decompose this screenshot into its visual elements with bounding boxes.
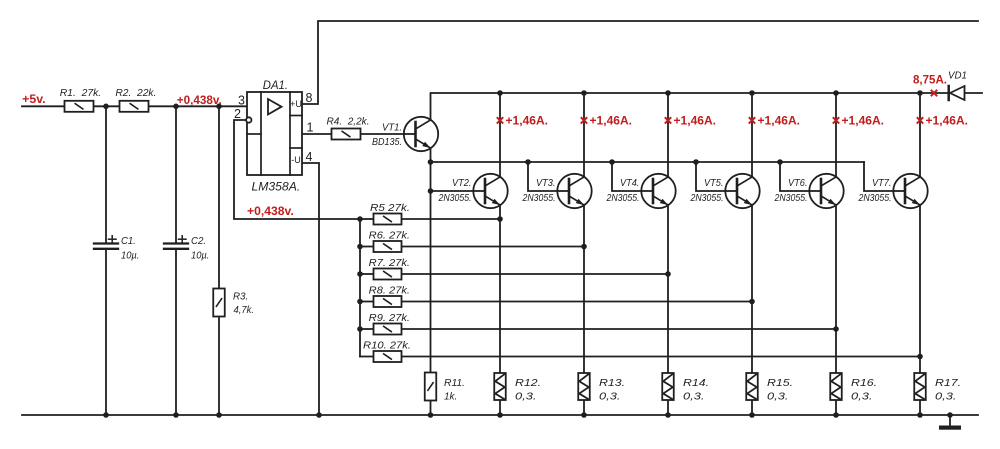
- resistor R6: [374, 241, 402, 252]
- measure mark x=920: [917, 117, 923, 123]
- node VT2 base: [428, 188, 434, 194]
- svg-text:10µ.: 10µ.: [191, 249, 209, 261]
- wire R15 to rail: [751, 400, 753, 415]
- transistor Q4 VT4 2N3055: [641, 174, 675, 208]
- node collector bus x=500: [497, 90, 503, 96]
- node bus y=329: [357, 326, 363, 332]
- svg-text:0,3.: 0,3.: [683, 391, 704, 403]
- svg-text:DA1.: DA1.: [263, 80, 288, 92]
- svg-text:R10. 27k.: R10. 27k.: [363, 340, 411, 352]
- wire R17 to rail: [919, 400, 921, 415]
- node rail x=219: [216, 412, 222, 418]
- wire R12 to rail: [499, 400, 501, 415]
- svg-text:4: 4: [306, 150, 313, 164]
- wire to VT2 base: [431, 190, 474, 192]
- node base bus x=528: [525, 159, 531, 165]
- svg-text:C1.: C1.: [121, 235, 136, 247]
- node emitter x=500: [497, 216, 503, 222]
- wire base bus to VT3 base: [528, 162, 558, 191]
- svg-text:+1,46А.: +1,46А.: [926, 114, 969, 128]
- svg-text:10µ.: 10µ.: [121, 249, 139, 261]
- node collector bus x=668: [665, 90, 671, 96]
- wire VT3 collector: [583, 93, 585, 177]
- wire VT1 collector / collector bus: [431, 93, 921, 121]
- node rail x=176: [173, 412, 179, 418]
- svg-text:4,7k.: 4,7k.: [234, 304, 255, 316]
- wire node to VD1: [920, 92, 948, 94]
- svg-text:VT4.: VT4.: [620, 177, 640, 189]
- resistor R12: [494, 373, 506, 400]
- resistor R17: [914, 373, 926, 400]
- measure mark x=836: [833, 117, 839, 123]
- wire VT5 collector: [751, 93, 753, 177]
- resistor R16: [830, 373, 842, 400]
- svg-text:R4. 2,2k.: R4. 2,2k.: [327, 116, 370, 128]
- op-amp U1 DA1 LM358A: [247, 92, 302, 175]
- wire bus to R5: [360, 218, 374, 220]
- transistor Q3 VT3 2N3055: [557, 174, 591, 208]
- transistor Q5 VT5 2N3055: [725, 174, 759, 208]
- svg-text:R15.: R15.: [767, 377, 793, 389]
- resistor R2: [120, 101, 149, 112]
- svg-text:2N3055.: 2N3055.: [522, 192, 556, 204]
- wire VT7 emitter: [919, 205, 921, 373]
- resistor R7: [374, 269, 402, 280]
- svg-text:2N3055.: 2N3055.: [606, 192, 640, 204]
- wire base bus to VT4 base: [612, 162, 642, 191]
- svg-text:3: 3: [238, 93, 245, 107]
- svg-text:BD135.: BD135.: [372, 136, 402, 148]
- wire VT5 emitter: [751, 205, 753, 373]
- svg-text:0,3.: 0,3.: [515, 391, 536, 403]
- wire base bus to VT5 base: [696, 162, 726, 191]
- node feedback bus: [357, 216, 363, 222]
- node emitter x=752: [749, 299, 755, 305]
- svg-text:+1,46А.: +1,46А.: [590, 114, 633, 128]
- node rail x=950: [947, 412, 953, 418]
- wire bus to R8: [360, 301, 374, 303]
- wire R11 to rail: [430, 400, 432, 415]
- wire R4 to VT1 base: [361, 133, 405, 135]
- svg-text:VD1: VD1: [948, 70, 967, 82]
- svg-text:R6. 27k.: R6. 27k.: [369, 230, 410, 242]
- svg-text:2N3055.: 2N3055.: [438, 192, 472, 204]
- wire bus to R10: [360, 356, 374, 358]
- svg-text:0,3.: 0,3.: [767, 391, 788, 403]
- node rail x=836: [833, 412, 839, 418]
- wire R9 to VT6 emitter: [402, 328, 837, 330]
- node R3/rail: [216, 104, 222, 110]
- capacitor C2: [164, 236, 188, 249]
- node rail x=430.5: [428, 412, 434, 418]
- resistor R15: [746, 373, 758, 400]
- svg-text:R8. 27k.: R8. 27k.: [369, 285, 410, 297]
- svg-text:R17.: R17.: [935, 377, 961, 389]
- svg-text:1: 1: [307, 121, 314, 135]
- wire C1 bottom: [105, 249, 107, 415]
- node rail x=319: [316, 412, 322, 418]
- wire R14 to rail: [667, 400, 669, 415]
- wire VT4 collector: [667, 93, 669, 177]
- svg-text:R9. 27k.: R9. 27k.: [369, 312, 410, 324]
- svg-text:+1,46А.: +1,46А.: [506, 114, 549, 128]
- wire ground rail: [22, 414, 978, 416]
- svg-text:+5v.: +5v.: [22, 92, 45, 106]
- svg-text:VT5.: VT5.: [704, 177, 724, 189]
- wire base bus to VT6 base: [780, 162, 810, 191]
- wire R13 to rail: [583, 400, 585, 415]
- svg-text:2N3055.: 2N3055.: [858, 192, 892, 204]
- wire C1 top: [105, 106, 107, 244]
- wire +5V rail: [22, 105, 247, 107]
- wire R7 to VT4 emitter: [402, 273, 669, 275]
- svg-text:R14.: R14.: [683, 377, 709, 389]
- svg-text:R1. 27k.: R1. 27k.: [60, 87, 101, 99]
- resistor R4: [332, 129, 361, 140]
- measure mark x=500: [497, 117, 503, 123]
- wire base bus to VT7 base: [864, 162, 894, 191]
- capacitor C1: [94, 236, 118, 249]
- wire VT6 collector: [835, 93, 837, 177]
- measure mark x=752: [749, 117, 755, 123]
- node emitter x=584: [581, 244, 587, 250]
- transistor Q7 VT7 2N3055: [893, 174, 927, 208]
- resistor R3: [213, 289, 225, 317]
- svg-text:R5 27k.: R5 27k.: [370, 202, 410, 214]
- svg-text:0,3.: 0,3.: [599, 391, 620, 403]
- wire R5 to VT2 emitter: [402, 218, 501, 220]
- wire R3 top: [218, 106, 220, 289]
- measure mark x=668: [665, 117, 671, 123]
- node rail x=668: [665, 412, 671, 418]
- resistor R5: [374, 214, 402, 225]
- wire VT2 emitter: [499, 205, 501, 373]
- wire VT2 collector: [499, 93, 501, 177]
- node base bus x=612: [609, 159, 615, 165]
- resistor R10: [374, 351, 402, 362]
- transistor Q2 VT2 2N3055: [473, 174, 507, 208]
- wire R6 to VT3 emitter: [402, 246, 585, 248]
- node rail x=106: [103, 412, 109, 418]
- svg-text:+1,46А.: +1,46А.: [758, 114, 801, 128]
- svg-text:LM358A.: LM358A.: [252, 182, 301, 194]
- measure mark VD1: [931, 90, 937, 96]
- svg-text:8,75А.: 8,75А.: [913, 73, 947, 87]
- node C1/rail: [103, 104, 109, 110]
- svg-text:0,3.: 0,3.: [935, 391, 956, 403]
- wire VT6 emitter: [835, 205, 837, 373]
- svg-text:VT6.: VT6.: [788, 177, 808, 189]
- svg-text:C2.: C2.: [191, 235, 206, 247]
- node rail x=500: [497, 412, 503, 418]
- svg-text:R7. 27k.: R7. 27k.: [369, 257, 410, 269]
- node emitter x=836: [833, 326, 839, 332]
- wire R3 bottom: [218, 317, 220, 416]
- svg-text:-U: -U: [291, 155, 301, 165]
- svg-text:VT2.: VT2.: [452, 177, 472, 189]
- wire feedback bus: [359, 219, 361, 357]
- svg-text:+0,438v.: +0,438v.: [177, 93, 222, 107]
- resistor R13: [578, 373, 590, 400]
- resistor R1: [65, 101, 94, 112]
- svg-text:2N3055.: 2N3055.: [690, 192, 724, 204]
- node emitter x=920: [917, 354, 923, 360]
- node rail x=584: [581, 412, 587, 418]
- svg-text:+0,438v.: +0,438v.: [247, 204, 294, 218]
- svg-text:2: 2: [234, 107, 241, 121]
- node collector bus x=752: [749, 90, 755, 96]
- wire VT3 emitter: [583, 205, 585, 373]
- pin 2 inversion bubble: [246, 117, 251, 122]
- svg-text:R13.: R13.: [599, 377, 625, 389]
- wire VT7 collector: [919, 93, 921, 177]
- node VT1 emitter / base bus: [428, 159, 434, 165]
- node emitter x=668: [665, 271, 671, 277]
- node bus y=246.5: [357, 244, 363, 250]
- svg-text:1k.: 1k.: [444, 391, 457, 403]
- svg-text:+1,46А.: +1,46А.: [674, 114, 717, 128]
- measure mark x=584: [581, 117, 587, 123]
- wire pin8 to top +U line: [302, 21, 978, 104]
- wire R16 to rail: [835, 400, 837, 415]
- node bus y=274: [357, 271, 363, 277]
- svg-text:R2. 22k.: R2. 22k.: [115, 87, 156, 99]
- transistor Q6 VT6 2N3055: [809, 174, 843, 208]
- svg-text:0,3.: 0,3.: [851, 391, 872, 403]
- node rail x=920: [917, 412, 923, 418]
- node collector bus x=584: [581, 90, 587, 96]
- node rail x=752: [749, 412, 755, 418]
- transistor Q1 VT1 BD135: [404, 117, 438, 151]
- wire bus to R6: [360, 246, 374, 248]
- wire VT1 emitter to R11: [430, 162, 432, 373]
- node collector bus x=920: [917, 90, 923, 96]
- svg-text:8: 8: [306, 91, 313, 105]
- wire R10 to VT7 emitter: [402, 356, 921, 358]
- wire VT4 emitter: [667, 205, 669, 373]
- resistor R8: [374, 296, 402, 307]
- svg-text:R3.: R3.: [233, 290, 248, 302]
- node collector bus x=836: [833, 90, 839, 96]
- svg-text:2N3055.: 2N3055.: [774, 192, 808, 204]
- svg-text:+U: +U: [290, 99, 302, 109]
- svg-text:VT7.: VT7.: [872, 177, 892, 189]
- wire pin4 down: [302, 163, 319, 415]
- svg-text:VT1.: VT1.: [382, 122, 402, 134]
- node bus y=301.5: [357, 299, 363, 305]
- resistor R11: [425, 373, 437, 401]
- wire bus to R7: [360, 273, 374, 275]
- node base bus x=696: [693, 159, 699, 165]
- wire base bus: [431, 161, 865, 163]
- svg-text:+1,46А.: +1,46А.: [842, 114, 885, 128]
- wire bus to R9: [360, 328, 374, 330]
- resistor R9: [374, 324, 402, 335]
- wire R8 to VT5 emitter: [402, 301, 753, 303]
- node C2/rail: [173, 104, 179, 110]
- svg-text:R16.: R16.: [851, 377, 877, 389]
- wire pin2 feedback: [234, 120, 360, 219]
- svg-text:VT3.: VT3.: [536, 177, 556, 189]
- svg-text:R11.: R11.: [444, 377, 465, 389]
- wire C2 bottom: [175, 249, 177, 415]
- node base bus x=780: [777, 159, 783, 165]
- wire VT1 emitter: [430, 149, 432, 162]
- diode VD1: [949, 86, 965, 100]
- wire VD1 output: [965, 92, 983, 94]
- ground: [939, 415, 961, 430]
- wire pin1 to R4: [302, 133, 332, 135]
- resistor R14: [662, 373, 674, 400]
- wire C2 top: [175, 106, 177, 244]
- svg-text:R12.: R12.: [515, 377, 541, 389]
